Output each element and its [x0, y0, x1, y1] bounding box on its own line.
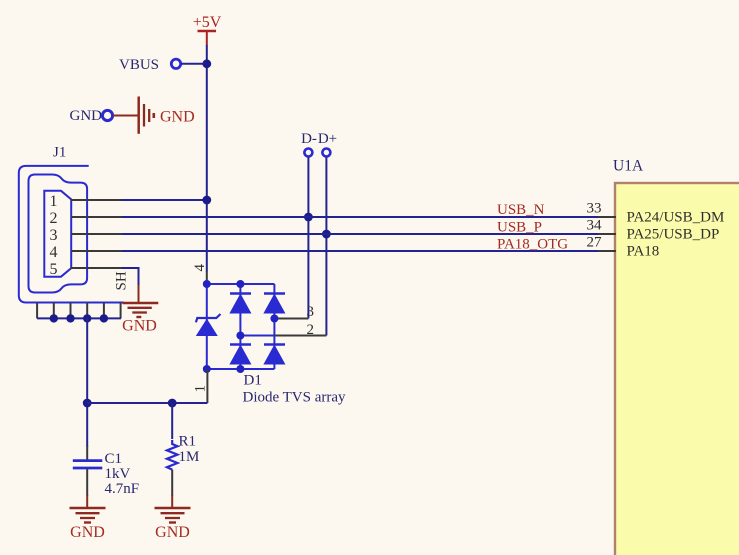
wire GND port to ground symbol — [113, 115, 138, 117]
port GND (top-left) — [70, 108, 113, 124]
svg-text:GND: GND — [155, 524, 190, 541]
wire D- vertical — [307, 157, 309, 319]
svg-text:3: 3 — [307, 304, 315, 320]
diode D1d (bottom-right) — [264, 345, 285, 365]
svg-text:GND: GND — [122, 318, 157, 335]
wire R1 bottom — [171, 470, 173, 497]
diode D1c (bottom-left) — [230, 345, 251, 365]
pin U1A.27 — [598, 250, 616, 252]
svg-text:GND: GND — [70, 108, 103, 124]
svg-text:D1: D1 — [244, 373, 262, 389]
wire USB_N row — [122, 216, 599, 218]
pin 1 stub of D1 — [206, 369, 208, 403]
node VBUS junction — [202, 59, 211, 68]
svg-text:GND: GND — [160, 109, 195, 126]
svg-text:VBUS: VBUS — [119, 57, 159, 73]
ground GND (sideways bars) — [139, 97, 195, 134]
power +5V symbol — [193, 14, 222, 46]
pin J1.4 — [71, 250, 123, 252]
svg-text:J1: J1 — [53, 145, 66, 161]
svg-text:PA18_OTG: PA18_OTG — [497, 237, 568, 253]
svg-text:D+: D+ — [318, 131, 337, 147]
svg-text:SH: SH — [114, 271, 130, 290]
svg-text:PA25/USB_DP: PA25/USB_DP — [627, 227, 720, 243]
wire shield bus — [37, 317, 121, 319]
wire C1 to ground — [86, 495, 88, 508]
svg-text:1: 1 — [193, 385, 209, 393]
wire USB_P row — [122, 233, 599, 235]
pin J1.1 — [71, 199, 123, 201]
node D1 junctions — [203, 280, 279, 373]
node D+ / USB_P junction — [322, 230, 331, 239]
wire ground net vertical from shield bus — [86, 318, 88, 447]
svg-text:D-: D- — [301, 131, 317, 147]
wire R1 top — [171, 403, 173, 439]
pin 2 stub of D1 — [274, 335, 326, 337]
resistor R1 — [167, 440, 178, 470]
svg-text:4.7nF: 4.7nF — [105, 481, 140, 497]
wire pin1 to +5V net — [121, 199, 205, 201]
wire VBUS to +5V net — [181, 63, 205, 65]
pin U1A.34 — [598, 233, 616, 235]
capacitor C1 — [73, 446, 103, 496]
svg-text:4: 4 — [192, 264, 208, 272]
port D+ — [318, 131, 337, 157]
pin U1A.33 — [598, 216, 616, 218]
node R1 tap junction — [168, 399, 177, 408]
pin 4 stub of D1 — [206, 271, 208, 284]
svg-text:USB_N: USB_N — [497, 202, 545, 218]
svg-text:1M: 1M — [179, 449, 200, 465]
shield pins of J1 (bottom stubs) — [37, 303, 121, 319]
wire PA18_OTG row — [122, 250, 599, 252]
svg-text:R1: R1 — [179, 434, 197, 450]
wire ground net horizontal — [87, 402, 207, 404]
svg-text:4: 4 — [50, 244, 58, 261]
svg-text:1: 1 — [50, 193, 58, 210]
svg-text:PA24/USB_DM: PA24/USB_DM — [627, 210, 725, 226]
wire +5V vertical net — [206, 45, 208, 272]
svg-text:C1: C1 — [105, 451, 123, 467]
svg-text:33: 33 — [587, 201, 602, 217]
diode D1b (top-right) — [264, 294, 285, 314]
svg-text:2: 2 — [50, 210, 58, 227]
IC U1A body — [615, 183, 739, 555]
node shield bus junctions — [50, 314, 109, 322]
svg-text:1kV: 1kV — [105, 466, 131, 482]
svg-text:PA18: PA18 — [627, 244, 660, 260]
connector J1 middle shell outline — [29, 175, 88, 293]
svg-text:+5V: +5V — [193, 14, 222, 31]
ground GND (under C1) — [70, 508, 106, 541]
pin J1.2 — [71, 216, 123, 218]
svg-text:3: 3 — [50, 227, 58, 244]
pin J1.5 — [71, 267, 123, 269]
port VBUS — [119, 57, 181, 73]
svg-text:34: 34 — [587, 218, 603, 234]
connector J1 contact block — [44, 191, 71, 277]
pin 3 stub of D1 — [274, 318, 308, 320]
connector J1 outer shell outline — [19, 166, 124, 303]
node ground net junction at C1 — [83, 399, 92, 408]
node D- / USB_N junction — [304, 213, 313, 222]
svg-text:2: 2 — [307, 322, 315, 338]
diode D1a (top-left) — [230, 294, 251, 314]
ground GND (near SH) — [122, 303, 158, 335]
svg-text:USB_P: USB_P — [497, 220, 542, 236]
wire pin5 to ground — [122, 268, 139, 286]
zener diode D1e (left) — [196, 314, 221, 336]
ground GND (under R1) — [155, 508, 191, 541]
svg-text:5: 5 — [50, 261, 58, 278]
svg-text:GND: GND — [70, 524, 105, 541]
pin J1.3 — [71, 233, 123, 235]
svg-text:27: 27 — [587, 235, 603, 251]
port D- — [301, 131, 317, 157]
node pin1 / +5V junction — [202, 196, 211, 205]
svg-text:U1A: U1A — [613, 158, 644, 175]
wire D+ vertical — [325, 157, 327, 336]
diode array D1 outline rails — [207, 284, 275, 369]
svg-text:Diode TVS array: Diode TVS array — [243, 390, 347, 406]
